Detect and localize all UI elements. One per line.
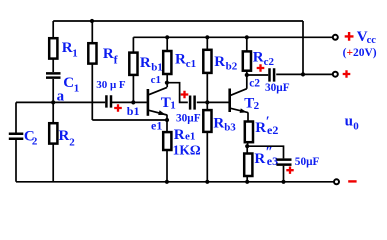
node a [51, 100, 55, 104]
resistor Re3 [244, 154, 252, 177]
svg-text:cc: cc [367, 35, 377, 46]
wire Vcc rail [133, 36, 332, 38]
resistor Rf [88, 43, 96, 63]
wire c1 to coupling cap [167, 83, 188, 103]
svg-text:C: C [63, 75, 74, 91]
resistor Rb2 wire [206, 37, 208, 102]
capacitor 30uF input [106, 95, 111, 107]
wire c2 to output cap [247, 74, 268, 76]
capacitor 30uF output [270, 68, 275, 81]
svg-text:30 μ F: 30 μ F [96, 79, 126, 91]
junction output node [301, 72, 305, 76]
svg-text:b1: b1 [127, 104, 140, 118]
resistor Rb3 wire [206, 102, 208, 181]
svg-text:1: 1 [74, 83, 80, 95]
resistor Re1 [163, 132, 171, 150]
svg-text:R: R [253, 50, 264, 66]
polarity + input cap [114, 104, 122, 112]
svg-text:2: 2 [32, 136, 38, 148]
junction Rf top [90, 19, 94, 23]
svg-text:R: R [59, 128, 70, 144]
svg-text:c2: c2 [264, 56, 275, 68]
wire R1 column [52, 21, 54, 102]
polarity + 50uF [286, 167, 293, 174]
junction b1 [131, 100, 135, 104]
svg-text:e1: e1 [151, 119, 162, 133]
transistor T1 [147, 89, 150, 116]
svg-text:R: R [62, 40, 73, 56]
svg-text:f: f [114, 53, 119, 67]
wire bottom rail [16, 181, 334, 183]
resistor R1 [49, 38, 57, 58]
resistor R2 [49, 123, 57, 143]
wire cap to base2 [197, 101, 229, 103]
resistor Rf wire [91, 21, 93, 120]
junction base2 node [205, 100, 209, 104]
svg-text:2: 2 [69, 137, 75, 149]
capacitor C2 branch wire [15, 102, 17, 181]
svg-text:R: R [254, 151, 265, 167]
capacitor 50uF [276, 160, 291, 165]
svg-text:R: R [255, 120, 266, 136]
junction Re1 bottom [165, 180, 169, 184]
svg-text:b2: b2 [226, 61, 238, 73]
resistor R2 wire [52, 102, 54, 181]
junction Rb2 top [205, 35, 209, 39]
svg-text:R: R [213, 116, 224, 132]
svg-text:R: R [174, 127, 185, 143]
terminal Vcc [333, 35, 338, 40]
svg-text:(+20V): (+20V) [343, 47, 377, 59]
svg-text:c2: c2 [249, 78, 260, 90]
junction 50uF bottom [281, 180, 285, 184]
polarity + interstage cap [181, 91, 189, 99]
svg-text:e2: e2 [267, 123, 278, 137]
svg-text:e3: e3 [267, 154, 278, 168]
terminal output plus [333, 72, 338, 77]
resistor Re2 wire handled above, box: [245, 122, 253, 143]
svg-text:R: R [103, 46, 114, 62]
resistor Rc2 wire [246, 37, 248, 75]
junction c1 [165, 81, 169, 85]
capacitor C1 [46, 73, 61, 77]
resistor Rb2 [203, 50, 211, 73]
wire e2 node to 50uF [247, 146, 283, 182]
junction c2 [245, 73, 249, 77]
junction Rc1 top [165, 35, 169, 39]
terminal output minus [334, 179, 339, 184]
svg-text:R: R [214, 54, 225, 70]
polarity minus [348, 180, 356, 182]
resistor Rc1 wire [166, 37, 168, 87]
resistor Rb1 [129, 53, 137, 75]
junction e2 node [245, 144, 249, 148]
capacitor 30uF interstage [190, 96, 195, 110]
svg-text:R: R [140, 55, 151, 71]
svg-text:1: 1 [72, 48, 78, 60]
polarity + Vcc [345, 32, 354, 41]
wire input horizontal [16, 101, 147, 103]
resistor Rb1 wire [132, 37, 134, 102]
capacitor C2 [9, 134, 23, 139]
junction Rb3 bottom [205, 180, 209, 184]
svg-text:b1: b1 [151, 62, 163, 74]
svg-text:c1: c1 [151, 74, 161, 86]
svg-text:e1: e1 [185, 131, 195, 143]
svg-text:R: R [175, 52, 186, 68]
resistor Re3 wire [246, 146, 248, 182]
svg-text:2: 2 [254, 100, 260, 112]
wire rail-to-output vertical [302, 21, 304, 74]
svg-text:0: 0 [353, 120, 359, 132]
wire output cap to terminal [276, 73, 333, 75]
svg-text:50μF: 50μF [295, 156, 320, 168]
svg-text:30μF: 30μF [176, 112, 201, 124]
svg-text:c1: c1 [186, 58, 196, 70]
junction e1 [165, 118, 169, 122]
junction Rc2 top [245, 35, 249, 39]
resistor Rc2 [243, 51, 251, 70]
svg-text:b3: b3 [224, 121, 236, 133]
wire top output rail [53, 20, 303, 22]
resistor Rc1 [163, 51, 171, 74]
transistor T2 [228, 89, 231, 113]
resistor Rb3 [203, 110, 211, 132]
svg-text:1KΩ: 1KΩ [173, 142, 201, 157]
wire feedback to e1 [92, 119, 167, 121]
svg-text:30μF: 30μF [265, 82, 290, 94]
junction Re3 bottom [245, 180, 249, 184]
svg-text:1: 1 [170, 99, 176, 111]
polarity + output terminal [343, 70, 351, 78]
polarity + output cap [257, 64, 265, 72]
wire Re2 to junction [247, 142, 249, 146]
resistor Re1 wire [166, 120, 168, 182]
svg-text:u: u [345, 114, 353, 130]
